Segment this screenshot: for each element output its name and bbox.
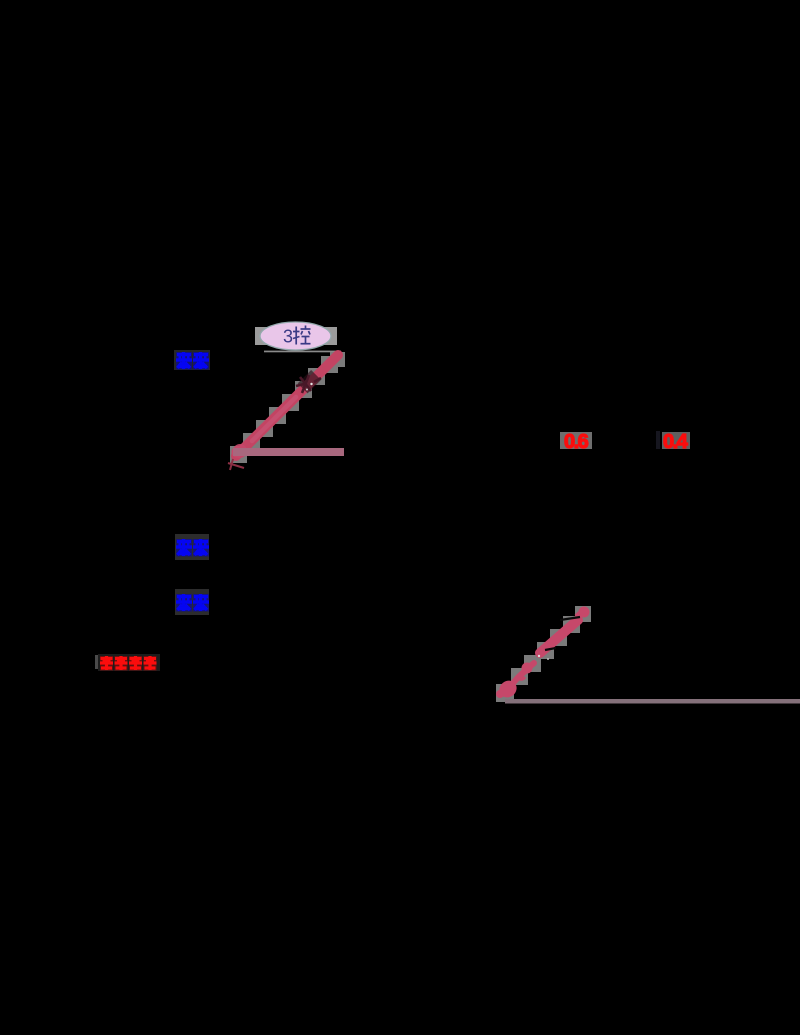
svg-text:3: 3: [283, 327, 293, 347]
svg-text:0.4: 0.4: [663, 431, 689, 453]
svg-text:0.6: 0.6: [564, 431, 589, 453]
